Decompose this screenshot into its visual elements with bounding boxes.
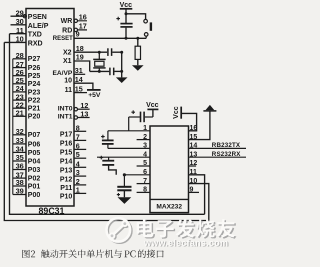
- svg-text:ALE/P: ALE/P: [28, 23, 49, 30]
- wire crystal bottom: [98, 68, 100, 71]
- wire C2 to gnd rail: [114, 70, 121, 72]
- svg-text:P07: P07: [28, 132, 41, 139]
- wire pin 23 stub: [13, 99, 26, 101]
- wire RESET pin9 to reset network: [74, 37, 146, 39]
- svg-text:28: 28: [16, 51, 24, 60]
- svg-text:RB232TX: RB232TX: [212, 142, 241, 149]
- inversion bubble RD pin17: [74, 28, 77, 31]
- wire X1 pin19: [74, 61, 90, 71]
- svg-text:P01: P01: [28, 183, 41, 190]
- resistor R1 (reset pulldown): [135, 46, 140, 59]
- power Vcc bar (reset): [120, 8, 133, 10]
- wire Vcc to node: [125, 9, 127, 14]
- ground (reset resistor): [132, 65, 144, 71]
- wire pin 4 stub: [74, 166, 86, 168]
- wire pin1 riser to C5: [128, 117, 130, 131]
- svg-text:30: 30: [16, 17, 24, 26]
- svg-text:16: 16: [79, 13, 87, 22]
- wire C4 bottom to RESET node: [125, 28, 127, 39]
- svg-text:P24: P24: [28, 81, 41, 88]
- wire pin 29 stub: [11, 15, 27, 17]
- wire pin 27 stub: [13, 67, 26, 69]
- svg-text:P14: P14: [60, 159, 73, 166]
- svg-text:P22: P22: [28, 98, 41, 105]
- wire to crystal: [98, 52, 100, 59]
- wire U2 pin10 to RXD loop: [189, 184, 209, 221]
- svg-text:P17: P17: [60, 132, 73, 139]
- plus mark C5: [131, 110, 135, 114]
- plus mark C6: [101, 135, 105, 139]
- svg-text:P13: P13: [60, 168, 73, 175]
- wire pin 35 stub: [13, 160, 26, 162]
- wire C1 to gnd rail: [112, 51, 121, 53]
- svg-text:P12: P12: [60, 176, 73, 183]
- svg-text:P27: P27: [28, 56, 41, 63]
- wire U2 pin12 stub: [189, 165, 197, 167]
- capacitor C8 (V- to gnd, polarized): [123, 175, 125, 187]
- wire pin 22 stub: [13, 107, 26, 109]
- svg-text:4: 4: [76, 159, 80, 168]
- svg-text:11: 11: [16, 26, 24, 35]
- wire RXD loop (89C31 pin10 to MAX232 pin10): [4, 42, 209, 220]
- svg-text:P16: P16: [60, 141, 73, 148]
- svg-text:P23: P23: [28, 89, 41, 96]
- svg-text:P15: P15: [60, 150, 73, 157]
- wire to R1: [137, 38, 139, 46]
- svg-text:RXD: RXD: [28, 40, 43, 47]
- wire pin 36 stub: [13, 169, 26, 171]
- svg-text:8: 8: [76, 123, 80, 132]
- svg-text:13: 13: [80, 109, 88, 118]
- capacitor C6 (pins 1-3, polarized): [107, 131, 109, 140]
- ground (pin15, pointing up): [203, 110, 216, 112]
- crystal Y1: [93, 58, 105, 60]
- svg-text:RD: RD: [62, 27, 72, 34]
- capacitor C4 (reset, polarized): [120, 23, 132, 25]
- wire X2 pin18: [74, 51, 107, 53]
- wire pin 1 stub: [74, 192, 86, 194]
- svg-text:11: 11: [65, 87, 73, 94]
- IC label separator: [150, 198, 189, 200]
- ground (oscillator): [116, 77, 128, 83]
- svg-text:Vcc: Vcc: [146, 102, 159, 109]
- svg-text:INT0: INT0: [58, 106, 73, 113]
- svg-text:X1: X1: [63, 58, 72, 65]
- junction rail top: [120, 51, 123, 54]
- svg-text:10: 10: [64, 78, 72, 85]
- inversion bubble INT1 pin13: [74, 116, 77, 119]
- wire pin 26 stub: [13, 75, 26, 77]
- wire TXD loop (89C31 pin11 to MAX232 pin11): [10, 34, 205, 215]
- wire U2 pin1: [108, 130, 150, 132]
- svg-text:39: 39: [16, 187, 24, 196]
- wire pin15 stub: [74, 92, 87, 94]
- watermark text dianzifashaoyou: [138, 220, 236, 239]
- wire U2 pin8 stub: [137, 191, 150, 193]
- junction crystal bottom: [98, 70, 101, 73]
- svg-text:P05: P05: [28, 150, 41, 157]
- junction Vcc/switch node: [125, 12, 128, 15]
- wire X1 rail: [90, 70, 110, 72]
- capacitor C5 (V+ to Vcc, polarized): [129, 116, 140, 118]
- svg-text:P21: P21: [28, 106, 41, 113]
- svg-text:www.elecfans.com: www.elecfans.com: [143, 238, 228, 248]
- svg-text:P06: P06: [28, 141, 41, 148]
- svg-text:P02: P02: [28, 176, 41, 183]
- wire pin 3 stub: [74, 175, 86, 177]
- caption figure 2: [22, 250, 35, 258]
- power Vcc bar (pin16, rotated): [180, 107, 182, 119]
- wire pin 2 stub: [74, 184, 86, 186]
- plus mark C8: [117, 193, 120, 196]
- wire to capacitor C4 top: [125, 14, 127, 23]
- wire U2 pin7 stub: [137, 183, 150, 185]
- plus mark C7: [100, 156, 104, 160]
- wire U2 pin6: [124, 174, 150, 176]
- svg-text:+5V: +5V: [88, 92, 101, 99]
- wire pin 11 stub: [10, 33, 27, 35]
- svg-text:5: 5: [76, 150, 80, 159]
- wire pin14 to +5V: [74, 83, 93, 89]
- svg-text:3: 3: [76, 168, 80, 177]
- power +5V symbol: [87, 89, 101, 91]
- svg-text:X2: X2: [63, 49, 72, 56]
- capacitor C7 (pins 4-5, polarized): [108, 157, 110, 160]
- junction crystal top: [98, 51, 101, 54]
- wire pin 24 stub: [13, 91, 26, 93]
- wire pin 8 stub: [74, 130, 86, 132]
- wire pin13 stub: [78, 117, 90, 119]
- svg-text:21: 21: [16, 109, 24, 118]
- wire pin 30 stub: [11, 24, 27, 26]
- svg-text:9: 9: [76, 30, 80, 39]
- svg-text:P04: P04: [28, 158, 41, 165]
- wire pin 6 stub: [74, 148, 86, 150]
- inversion bubble PSEN pin29: [23, 15, 26, 18]
- wire U2 pin16 to Vcc: [182, 113, 197, 130]
- wire U2 pin4: [97, 156, 150, 158]
- svg-text:MAX232: MAX232: [156, 204, 182, 211]
- op IC U1 89C31 microcontroller body: [26, 9, 74, 207]
- wire U2 pin5 stub: [137, 165, 150, 167]
- wire pin 34 stub: [13, 151, 26, 153]
- wire pin 7 stub: [74, 139, 86, 141]
- plus mark C4: [116, 17, 120, 21]
- wire pin 33 stub: [13, 143, 26, 145]
- svg-text:10: 10: [16, 35, 24, 44]
- power Vcc bar (MAX232 V+): [147, 108, 158, 110]
- wire pin 25 stub: [13, 83, 26, 85]
- op IC U2 MAX232 body: [150, 126, 189, 213]
- svg-text:19: 19: [76, 53, 84, 62]
- svg-text:P11: P11: [60, 185, 72, 192]
- wire pin12 stub: [78, 108, 90, 110]
- capacitor C2 (X1 side): [109, 68, 111, 76]
- junction pin6/C8: [123, 173, 126, 176]
- wire pin 39 stub: [13, 194, 26, 196]
- svg-text:P10: P10: [60, 194, 73, 201]
- wire U2 pin14 RS232 TX line: [189, 147, 247, 149]
- wire pin 5 stub: [74, 157, 86, 159]
- svg-text:32: 32: [16, 127, 24, 136]
- capacitor C1 (X2 side): [107, 48, 109, 56]
- svg-text:6: 6: [76, 141, 80, 150]
- junction RESET node: [125, 37, 128, 40]
- wire pin 21 stub: [13, 115, 26, 117]
- wire pin 38 stub: [13, 185, 26, 187]
- svg-text:Vcc: Vcc: [173, 106, 180, 119]
- wire U2 pin2 stub: [137, 139, 150, 141]
- inversion bubble WR pin16: [74, 19, 77, 22]
- svg-text:WR: WR: [61, 18, 73, 25]
- wire pin 37 stub: [13, 177, 26, 179]
- wire U2 pin11 to TXD loop: [189, 175, 205, 215]
- svg-text:P25: P25: [28, 73, 41, 80]
- svg-text:RESET: RESET: [53, 36, 73, 42]
- svg-text:18: 18: [76, 44, 84, 53]
- junction resistor R1 top: [136, 37, 139, 40]
- wire to Vcc bar: [152, 110, 154, 117]
- wire U2 pin15 to ground-up symbol: [189, 111, 210, 139]
- wire pin 32 stub: [13, 134, 26, 136]
- wire U2 pin3: [108, 147, 150, 149]
- svg-text:P26: P26: [28, 65, 41, 72]
- wire left bus vertical P2/P0: [12, 59, 14, 195]
- watermark logo ring: [107, 218, 132, 243]
- wire pin 10 stub: [4, 41, 26, 43]
- wire U2 pin13 RS232 RX line: [189, 156, 247, 158]
- ground (C8): [118, 197, 132, 204]
- svg-text:7: 7: [76, 132, 80, 141]
- svg-text:P20: P20: [28, 114, 41, 121]
- svg-text:P03: P03: [28, 167, 41, 174]
- inversion bubble INT0 pin12: [74, 108, 77, 111]
- svg-text:17: 17: [79, 22, 87, 31]
- wire pin31 stub: [74, 73, 85, 75]
- svg-text:RS232RX: RS232RX: [212, 151, 241, 158]
- wire pin 28 stub: [13, 58, 26, 60]
- junction rail bottom: [120, 70, 123, 73]
- wire oscillator ground rail: [121, 52, 123, 77]
- svg-text:TXD: TXD: [28, 32, 42, 39]
- wire pin17 stub: [78, 29, 88, 31]
- switch S1 reset pushbutton: [126, 14, 146, 19]
- wire U2 pin9 stub: [189, 191, 200, 193]
- svg-text:P00: P00: [28, 192, 41, 199]
- svg-text:EA/VP: EA/VP: [53, 70, 73, 77]
- wire C7 bottom to pin6 rail: [109, 165, 117, 175]
- svg-text:1: 1: [76, 185, 80, 194]
- wire C8 to ground: [123, 190, 125, 197]
- svg-text:PSEN: PSEN: [28, 14, 47, 21]
- wire R1 to ground: [137, 59, 139, 65]
- svg-text:INT1: INT1: [58, 114, 73, 121]
